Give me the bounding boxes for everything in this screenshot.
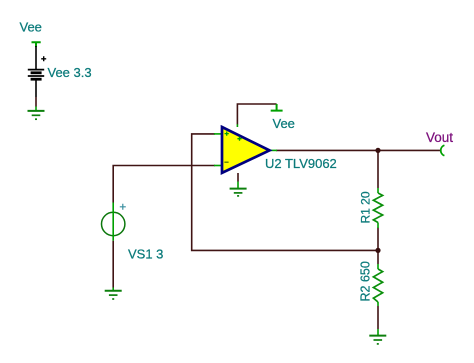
wire R1 bottom to node [377, 228, 379, 251]
battery V1 top lead [35, 46, 37, 69]
wire op-amp V+ pin to Vee terminal [237, 104, 276, 125]
resistor R1 leads [377, 188, 379, 193]
junction node at output divider [375, 148, 380, 153]
wire op-amp output to Vout [276, 149, 440, 151]
ground (op-amp) [230, 189, 247, 196]
source VS1 circle [102, 212, 125, 235]
ground stub (R2) [377, 329, 379, 335]
junction node at feedback [375, 248, 380, 253]
wire VS1 to ground [112, 241, 114, 288]
wire node to R2 top [377, 250, 379, 264]
source VS1 plus mark [120, 204, 126, 210]
terminal Vout arc [441, 145, 445, 156]
wire R1 top branch [377, 150, 379, 188]
ground (battery) [28, 111, 45, 119]
op-amp U2 triangle [222, 127, 270, 173]
svg-text:Vee: Vee [273, 116, 295, 131]
svg-text:U2 TLV9062: U2 TLV9062 [265, 156, 337, 171]
wire feedback net (R1/R2 node to non-inverting input) [192, 134, 378, 251]
svg-text:R1 20: R1 20 [358, 191, 372, 223]
op-amp input pin stubs [214, 124, 277, 165]
ground stub (battery) [35, 107, 37, 111]
op-amp V+ supply mark [237, 137, 241, 141]
battery bottom lead [35, 81, 37, 98]
op-amp - input mark [224, 161, 228, 163]
battery Vee 3.3 plates [28, 70, 44, 80]
ground (VS1) [105, 291, 122, 299]
source VS1 through lead [112, 203, 114, 241]
op-amp + input mark [225, 132, 229, 136]
resistor R2 zigzag [373, 269, 382, 302]
svg-text:R2 650: R2 650 [358, 261, 372, 301]
wire battery to ground [35, 97, 37, 107]
terminal Vee (battery top) [32, 42, 41, 47]
svg-text:Vee 3.3: Vee 3.3 [48, 65, 92, 80]
resistor R1 zigzag [373, 193, 382, 223]
ground (R2) [369, 336, 386, 344]
wire VS1 to op-amp inverting input [113, 166, 215, 203]
svg-text:Vee: Vee [20, 20, 42, 35]
wire R2 bottom to ground [377, 306, 379, 329]
battery plus mark [41, 56, 46, 61]
svg-text:VS1 3: VS1 3 [128, 247, 163, 262]
op-amp ground pin [237, 173, 239, 182]
svg-text:Vout: Vout [426, 130, 453, 145]
terminal Vee (op-amp supply) [271, 104, 283, 111]
resistor R2 leads [377, 264, 379, 269]
